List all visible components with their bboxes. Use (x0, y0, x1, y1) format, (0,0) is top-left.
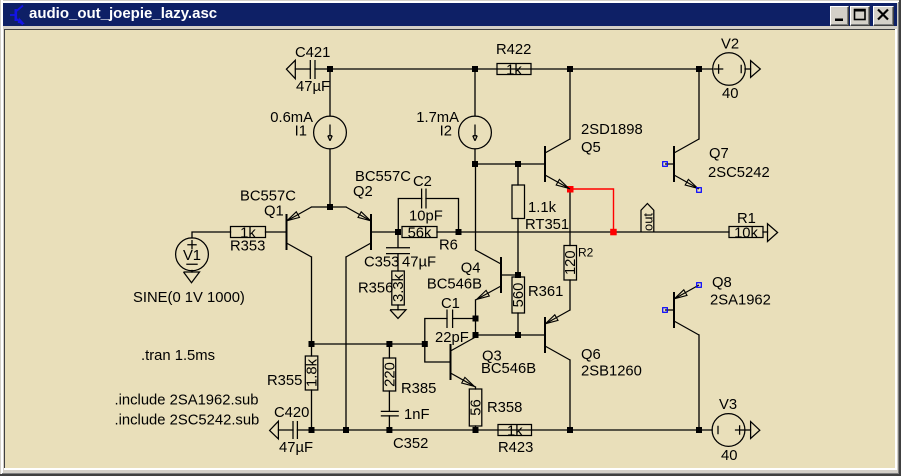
capacitor C353 (386, 248, 410, 254)
svg-text:56k: 56k (408, 226, 432, 242)
label C2 (413, 174, 432, 190)
transistor Q2 (346, 207, 371, 257)
svg-text:BC546B: BC546B (427, 277, 482, 293)
label Q5 (581, 140, 601, 156)
label C1 (441, 296, 460, 312)
wire Q3 emitter to R358 (475, 387, 477, 430)
label C420 (274, 405, 309, 421)
wire C1 loop (425, 319, 476, 363)
svg-text:R353: R353 (230, 239, 265, 255)
svg-text:R2: R2 (578, 246, 594, 260)
wire Q5 collector (569, 69, 571, 139)
svg-text:C421: C421 (295, 45, 330, 61)
svg-text:1.8k: 1.8k (305, 358, 321, 387)
value Q8 2SA1962 (710, 293, 771, 309)
wire Q5 emitter to R2 to Q6 emitter (569, 189, 571, 310)
resistor R356 (392, 271, 405, 305)
value R423 1k (507, 424, 523, 440)
wire Q2 collector column (345, 257, 347, 430)
svg-text:R361: R361 (528, 284, 563, 300)
wire R355 stubs (311, 344, 313, 430)
minimize button (830, 6, 849, 26)
port arrow C421 (286, 60, 295, 78)
label R1 (737, 211, 756, 227)
wire Q4 collector column (475, 164, 477, 250)
label C421 (295, 45, 330, 61)
resistor R358 (469, 389, 482, 426)
wire Q2 base (371, 231, 398, 233)
pin open square Q7 emitter (697, 188, 702, 193)
voltage source V2 (713, 53, 746, 86)
resistor R353 (231, 227, 266, 238)
wire C353 branch (397, 232, 399, 310)
svg-text:22pF: 22pF (435, 330, 469, 346)
svg-text:BC546B: BC546B (481, 361, 536, 377)
resistor R355 (305, 356, 318, 390)
wire Q4 base (501, 274, 518, 276)
resistor RT351 (512, 185, 525, 219)
wire V1 to ground (191, 271, 193, 273)
net label out rotated (640, 213, 655, 231)
label V3 (719, 397, 737, 413)
wire RT351-R361 column (517, 164, 519, 335)
node Q8 collector bottom (696, 427, 702, 433)
label V1 (183, 248, 201, 264)
port arrow R1 out (768, 224, 778, 242)
label R358 (487, 400, 522, 416)
capacitor C352 (381, 411, 399, 416)
ground V1 (184, 272, 200, 283)
svg-text:56: 56 (469, 399, 485, 415)
label Q1 value BC557C (240, 189, 296, 205)
label Q2 (353, 184, 373, 200)
svg-text:1.1k: 1.1k (528, 200, 557, 216)
value R422 1k (506, 63, 522, 79)
node red junction Q5 emitter (567, 186, 574, 193)
value C353 47uF (402, 255, 436, 271)
pin open square Q8 base (663, 308, 668, 313)
label R361 (528, 284, 563, 300)
node Q2 collector bottom (343, 427, 349, 433)
svg-text:2SD1898: 2SD1898 (581, 122, 643, 138)
svg-text:R355: R355 (267, 373, 302, 389)
svg-text:560: 560 (511, 283, 527, 308)
value C352 1nF (404, 407, 430, 423)
svg-text:220: 220 (383, 362, 399, 387)
value R361 560 rotated (511, 283, 527, 308)
svg-text:.include 2SA1962.sub: .include 2SA1962.sub (115, 393, 259, 409)
wire V1 to R353 to Q1 base (192, 232, 287, 238)
svg-text:C420: C420 (274, 405, 309, 421)
value R356 3.3k rotated (391, 273, 407, 302)
value R355 1.8k rotated (305, 358, 321, 387)
value R358 56 rotated (469, 399, 485, 415)
pin open square Q7 base (663, 162, 668, 167)
label R356 (358, 281, 393, 297)
wire I2 column (474, 69, 476, 164)
value Q4 BC546B (427, 277, 482, 293)
svg-text:47µF: 47µF (402, 255, 436, 271)
svg-text:R385: R385 (401, 381, 436, 397)
value V1 SINE directive (133, 290, 245, 306)
value V2 40 (722, 86, 738, 102)
wire Q3 collector stub (475, 335, 477, 337)
svg-text:1k: 1k (507, 424, 523, 440)
svg-text:BC557C: BC557C (240, 189, 296, 205)
label C353 (364, 255, 399, 271)
label I1 (295, 124, 307, 140)
value Q7 2SC5242 (708, 165, 770, 181)
label Q8 (712, 275, 732, 291)
node Q3 collector (473, 332, 479, 338)
svg-text:10k: 10k (734, 226, 758, 242)
node R355 top (309, 341, 315, 347)
wire Q8 collector column (698, 335, 700, 430)
port arrow C420 (270, 421, 279, 439)
value C420 47uF (279, 440, 313, 456)
node R361 bottom Q6 base (515, 332, 521, 338)
transistor Q5 (545, 139, 570, 189)
node C1 right (473, 316, 479, 322)
value C421 47uF (296, 79, 330, 95)
label V2 (721, 37, 739, 53)
capacitor C421 (310, 60, 315, 79)
label Q2 value BC557C (355, 169, 411, 185)
svg-text:120: 120 (563, 250, 579, 275)
svg-text:I2: I2 (440, 124, 452, 140)
svg-text:V2: V2 (721, 37, 739, 53)
label R355 (267, 373, 302, 389)
label Q3 (482, 349, 502, 365)
label Q1 (264, 204, 284, 220)
value R6 56k (408, 226, 432, 242)
svg-text:R423: R423 (498, 440, 533, 456)
wire out rail (459, 231, 768, 233)
capacitor C2 (422, 189, 426, 209)
svg-text:R356: R356 (358, 281, 393, 297)
svg-text:out: out (640, 213, 655, 231)
maximize button (850, 6, 870, 26)
svg-text:Q6: Q6 (581, 347, 601, 363)
node C1 left feedback (422, 341, 428, 347)
resistor R385 (383, 358, 396, 391)
node Q7 collector top (696, 66, 702, 72)
svg-text:Q7: Q7 (709, 146, 729, 162)
node I1 emitters (327, 204, 333, 210)
value C2 10pF (409, 209, 443, 225)
label C352 (393, 436, 428, 452)
node RT351 top (515, 161, 521, 167)
svg-text:Q4: Q4 (461, 261, 481, 277)
node RT351 bottom R361 top (515, 272, 521, 278)
svg-text:10pF: 10pF (409, 209, 443, 225)
svg-text:1k: 1k (506, 63, 522, 79)
label I2 (440, 124, 452, 140)
port out pentagon (641, 204, 654, 233)
value R1 10k (734, 226, 758, 242)
transistor Q8 (665, 285, 699, 335)
value R2 120 rotated (563, 250, 579, 275)
svg-text:SINE(0 1V 1000): SINE(0 1V 1000) (133, 290, 245, 306)
label Q6 (581, 347, 601, 363)
svg-text:40: 40 (722, 86, 738, 102)
value V3 40 (721, 448, 737, 464)
resistor R6 (402, 227, 437, 238)
value R385 220 rotated (383, 362, 399, 387)
node Q2 base (395, 229, 401, 235)
transistor Q6 (545, 310, 570, 360)
value Q6 2SB1260 (581, 364, 642, 380)
transistor Q4 (476, 250, 502, 300)
label I1 value 0.6mA (270, 110, 313, 126)
port arrow V2 (751, 61, 761, 78)
node I2 top (472, 66, 478, 72)
value RT351 1.1k (528, 200, 557, 216)
label Q4 (461, 261, 481, 277)
wire C420 stub (279, 429, 294, 431)
node I2 bottom (472, 161, 478, 167)
svg-text:R358: R358 (487, 400, 522, 416)
window icon (mini transistor) (6, 3, 30, 27)
svg-text:BC557C: BC557C (355, 169, 411, 185)
svg-text:C353: C353 (364, 255, 399, 271)
ground R356 (390, 310, 406, 319)
current source I1 (314, 116, 347, 149)
svg-text:1.7mA: 1.7mA (416, 110, 459, 126)
label R2 (578, 246, 594, 260)
svg-text:Q1: Q1 (264, 204, 284, 220)
current source I2 (459, 116, 492, 149)
wire Q7 collector column (698, 69, 700, 139)
svg-text:R6: R6 (439, 238, 458, 254)
svg-text:1nF: 1nF (404, 407, 430, 423)
node R355 bottom (309, 427, 315, 433)
directive .include 2SC5242 (115, 413, 260, 429)
label R385 (401, 381, 436, 397)
svg-text:3.3k: 3.3k (391, 273, 407, 302)
svg-text:2SB1260: 2SB1260 (581, 364, 642, 380)
svg-text:.include 2SC5242.sub: .include 2SC5242.sub (115, 413, 260, 429)
directive .tran (141, 348, 215, 364)
label Q5 value 2SD1898 (581, 122, 643, 138)
label R353 (230, 239, 265, 255)
label R6 (439, 238, 458, 254)
directive .include 2SA1962 (115, 393, 259, 409)
wire I2 to RT351 to Q5 base (475, 163, 545, 165)
svg-text:R422: R422 (496, 42, 531, 58)
wire bottom rail (297, 429, 712, 431)
svg-text:C352: C352 (393, 436, 428, 452)
node Q5 collector top (567, 66, 573, 72)
svg-text:Q5: Q5 (581, 140, 601, 156)
label R422 (496, 42, 531, 58)
resistor R1 (729, 227, 763, 238)
wire I1 column (329, 69, 331, 207)
label Q7 (709, 146, 729, 162)
svg-text:I1: I1 (295, 124, 307, 140)
wire Q1 collector column (311, 257, 313, 344)
svg-text:2SA1962: 2SA1962 (710, 293, 771, 309)
svg-text:Q2: Q2 (353, 184, 373, 200)
node red junction out rail (610, 229, 617, 236)
svg-text:2SC5242: 2SC5242 (708, 165, 770, 181)
resistor R361 (512, 277, 525, 313)
voltage source V1 (176, 238, 209, 271)
port arrow V3 (751, 422, 760, 439)
node R385 top (386, 341, 392, 347)
transistor Q1 (287, 207, 312, 257)
svg-text:47µF: 47µF (296, 79, 330, 95)
label R353 value 1k (240, 226, 256, 242)
label I2 value 1.7mA (416, 110, 459, 126)
wire red highlighted net (570, 189, 614, 232)
svg-text:V3: V3 (719, 397, 737, 413)
svg-text:47µF: 47µF (279, 440, 313, 456)
svg-text:RT351: RT351 (525, 217, 569, 233)
voltage source V3 (712, 414, 745, 447)
close button (873, 6, 894, 26)
transistor Q7 (665, 139, 699, 189)
wire R385-C352 column (388, 344, 390, 430)
svg-text:C2: C2 (413, 174, 432, 190)
svg-text:40: 40 (721, 448, 737, 464)
node R6 right (456, 229, 462, 235)
wire Q6 collector column (569, 360, 571, 430)
wire C2 loop (398, 199, 458, 233)
label R423 (498, 440, 533, 456)
resistor R2 (564, 246, 577, 281)
wire top rail (295, 68, 713, 70)
wire V2 to port (745, 68, 751, 70)
wire V3 to port (745, 429, 751, 431)
resistor R423 (498, 425, 532, 436)
wire Q3 collector node row (476, 334, 546, 336)
svg-text:Q8: Q8 (712, 275, 732, 291)
transistor Q3 (451, 337, 476, 387)
label RT351 (525, 217, 569, 233)
node C352 bottom (386, 427, 392, 433)
node Q6 collector bottom (567, 427, 573, 433)
value C1 22pF (435, 330, 469, 346)
wire R6 stubs (437, 231, 459, 233)
svg-text:C1: C1 (441, 296, 460, 312)
svg-text:V1: V1 (183, 248, 201, 264)
node C421-I1 top (327, 66, 333, 72)
wire Q4 emitter column (475, 300, 477, 335)
wire Q1-Q2 emitter row (312, 206, 347, 208)
resistor R422 (497, 64, 531, 75)
pin open square Q8 emitter (697, 283, 702, 288)
capacitor C1 (447, 310, 453, 329)
wire feedback rail y344 (312, 343, 425, 345)
svg-text:.tran 1.5ms: .tran 1.5ms (141, 348, 215, 364)
capacitor C420 (293, 421, 297, 439)
value Q3 BC546B (481, 361, 536, 377)
node R358 bottom (473, 427, 479, 433)
